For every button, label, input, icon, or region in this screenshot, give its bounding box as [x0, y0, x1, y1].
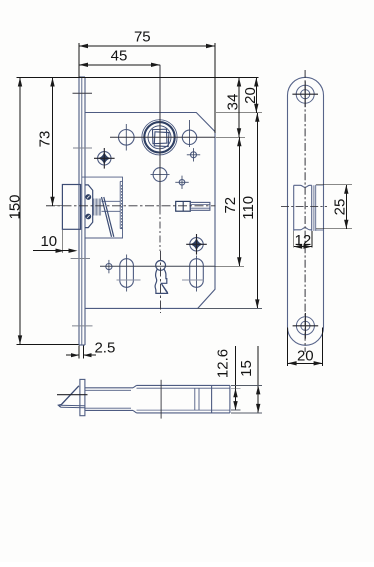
dim 15 line: [231, 346, 262, 413]
handle screw hole left: [119, 124, 135, 151]
countersunk screw upper left (star): [94, 148, 115, 169]
label 150: [7, 194, 24, 219]
dim 20 bottom line: [288, 328, 323, 366]
spindle square B: [154, 132, 169, 147]
small cross hole mid right: [175, 176, 188, 189]
vertical centerline through follower: [159, 65, 162, 313]
svg-text:25: 25: [332, 199, 349, 216]
faceplate front edge line: [78, 77, 80, 345]
svg-text:2.5: 2.5: [94, 340, 115, 357]
svg-text:20: 20: [242, 87, 259, 104]
middle hole below follower: [151, 168, 170, 182]
svg-text:150: 150: [7, 194, 24, 219]
faceplate back edge line: [81, 77, 83, 345]
follower hub outer circle: [142, 120, 177, 155]
dim 10 line: [33, 230, 78, 253]
dim 72 line: [215, 137, 244, 266]
latch cutout left edge: [293, 185, 295, 231]
svg-text:34: 34: [225, 94, 242, 111]
svg-text:12.6: 12.6: [215, 349, 232, 378]
bracket screw bottom: [85, 214, 91, 220]
dim 45 line: [79, 63, 160, 67]
deadbolt pin bar: [176, 201, 210, 211]
feature line lower (gray): [117, 279, 205, 281]
shared top extension line: [17, 77, 259, 79]
CENTERLINES: [46, 65, 216, 313]
RIGHT VIEW : faceplate front: [281, 70, 327, 352]
svg-text:75: 75: [134, 29, 151, 46]
guide bar right of housing: [120, 181, 122, 228]
fixing slot left oval: [120, 255, 134, 292]
horizontal centerline through handle holes: [110, 136, 216, 138]
label 20 bottom: [297, 348, 314, 365]
dim 150 line: [17, 78, 79, 345]
label 72: [222, 197, 239, 214]
label 12: [295, 232, 312, 249]
label 12.6: [215, 349, 232, 378]
follower hub inner circle: [148, 126, 171, 149]
bracket screw top: [85, 194, 91, 200]
dim 75 line: [79, 43, 215, 133]
top screw hole: [292, 81, 318, 107]
svg-text:12: 12: [295, 232, 312, 249]
small cross hole bottom left: [106, 260, 112, 273]
centerline tick vertical: [160, 380, 162, 419]
bottom screw hole: [293, 313, 319, 339]
faceplate top edge: [79, 76, 85, 78]
follower hub thick ring: [144, 122, 174, 152]
label 110: [240, 196, 257, 220]
SIDE VIEW : latch bolt bottom drawing: [57, 379, 230, 418]
label 73: [37, 131, 54, 148]
dim 110 line: [198, 113, 262, 309]
spindle square A: [152, 129, 166, 143]
latch end block: [212, 385, 230, 413]
latch cutout top edge with dip: [294, 185, 312, 187]
faceplate section bar: [80, 379, 85, 415]
latch housing rectangle: [82, 177, 123, 238]
dim 12 line: [294, 231, 312, 249]
svg-text:20: 20: [297, 348, 314, 365]
svg-text:110: 110: [240, 196, 257, 220]
DIMENSIONS: [17, 43, 353, 413]
latch axis centerline: [46, 205, 216, 207]
label 20 top: [242, 87, 259, 104]
latch tail rod: [102, 201, 121, 211]
dim 73 line: [46, 78, 62, 206]
handle screw hole right: [182, 120, 196, 147]
svg-text:72: 72: [222, 197, 239, 214]
cutout top line right part: [316, 185, 324, 230]
latch spring coil: [94, 199, 101, 216]
BLUE DRAWING : main lock body view: [62, 77, 215, 345]
centerline tick horizontal: [57, 394, 88, 396]
lock case outline with chamfered right corners: [85, 113, 215, 309]
label 2.5: [94, 340, 115, 357]
svg-text:73: 73: [37, 131, 54, 148]
faceplate stadium outline: [288, 77, 324, 345]
dim 25 line: [316, 185, 352, 229]
countersunk screw lower right (star): [186, 234, 207, 255]
label 75: [134, 29, 151, 46]
latch tail divider lines: [195, 388, 199, 410]
svg-text:10: 10: [40, 233, 57, 250]
faceplate tick marks: [71, 93, 93, 326]
keyhole axis line: [100, 265, 215, 267]
latch cutout bottom edge with dip: [294, 228, 312, 230]
lever arm diagonal: [102, 197, 114, 237]
dim 2.5: [66, 346, 96, 359]
label 25: [332, 199, 349, 216]
dim 20 top line: [216, 78, 262, 113]
faceplate bottom edge: [79, 344, 85, 346]
latch body narrow section: [85, 388, 133, 411]
label 10: [40, 233, 57, 250]
latch mounting bracket: [85, 185, 93, 228]
dim 34 line: [216, 78, 245, 138]
label 34: [225, 94, 242, 111]
latch nose wedge: [59, 386, 85, 408]
latch cutout right edges: [312, 185, 316, 231]
svg-text:45: 45: [111, 48, 128, 65]
svg-text:15: 15: [238, 360, 255, 377]
case front edge line: [84, 77, 86, 345]
keyhole: [155, 261, 168, 294]
latch head front view: [62, 185, 80, 230]
small hole below right: [187, 148, 200, 161]
dim 12.6 line: [231, 346, 241, 410]
label 15: [238, 360, 255, 377]
latch body wide section: [133, 385, 230, 413]
fixing slot right oval: [190, 256, 204, 292]
plate horizontal centerline: [281, 206, 327, 208]
label 45: [111, 48, 128, 65]
plate vertical centerline: [304, 70, 306, 352]
